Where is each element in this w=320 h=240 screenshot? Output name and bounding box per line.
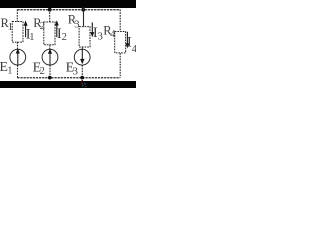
svg-text:4: 4 [110,29,116,40]
wire branch3 mid [81,47,83,50]
svg-text:1: 1 [8,22,13,33]
resistor R1 [12,22,23,43]
svg-text:2: 2 [40,21,45,32]
wire branch2 top [49,10,51,22]
top letterbox bar [0,0,136,8]
emf source E3 [74,49,90,65]
wire branch1 bottom [17,65,19,78]
svg-text:3: 3 [74,20,79,31]
node dot top rail branch2 [48,8,52,12]
wire branch4 top [119,10,121,32]
svg-text:3: 3 [98,32,103,43]
bottom letterbox bar [0,81,136,88]
svg-text:2: 2 [62,32,67,43]
wire branch3 bottom [81,65,83,78]
current arrow I1 [25,25,27,38]
wire branch1 top [16,10,18,22]
svg-text:1: 1 [7,66,12,77]
resistor R3 [79,27,90,47]
emf source E2 [42,49,58,65]
wire branch4 bottom [119,53,121,78]
node dot top rail branch3 [81,8,85,12]
wire top rail [17,9,120,11]
wire branch3 top [83,7,85,27]
svg-text:4: 4 [132,44,136,55]
resistor R4 [115,32,126,53]
svg-text:1: 1 [29,32,34,43]
emf source E1 [10,49,26,65]
current arrow I4 (down) [126,32,128,45]
node dot bottom rail branch3 [80,76,84,80]
wire branch2 bottom [49,65,51,78]
wire branch1 mid [17,42,19,50]
wire branch2 mid [49,45,51,50]
node dot bottom rail branch2 [48,76,52,80]
resistor R2 [44,22,55,45]
svg-text:2: 2 [40,66,45,77]
current arrow I3 (down) [91,22,93,33]
wire bottom rail [17,77,120,79]
current arrow I2 [56,24,58,37]
artifact colored glyph in bottom bar [81,80,86,87]
svg-text:3: 3 [73,66,78,77]
